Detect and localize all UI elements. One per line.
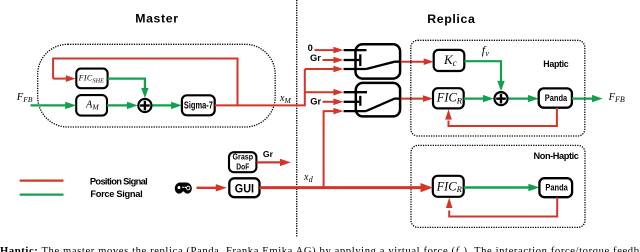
wire red haptic feedback Panda to FIC_R: [449, 108, 557, 126]
gamepad icon: [175, 182, 192, 193]
svg-text:Master: Master: [135, 12, 178, 26]
box FIC_R haptic: [433, 88, 464, 108]
wire green FIC_SHE to plus1: [108, 79, 145, 89]
svg-text:Gr: Gr: [310, 97, 321, 107]
box GUI: [229, 178, 259, 197]
wire red gamepad to GUI: [197, 187, 217, 189]
switch SW2: [344, 83, 400, 117]
wire red arrow Grasp DoF out: [257, 161, 281, 163]
svg-text:Position Signal: Position Signal: [90, 177, 148, 187]
svg-text:GUI: GUI: [235, 182, 254, 196]
wire green K_c to plus2: [464, 61, 501, 81]
svg-text:Replica: Replica: [427, 12, 475, 26]
wire red into switch1 input3: [305, 68, 334, 70]
wire green plus1 to Sigma-7: [152, 104, 172, 106]
wire red switch1 output to K_c: [401, 61, 425, 63]
legend green line: [20, 193, 64, 195]
svg-text:Gr: Gr: [263, 149, 274, 159]
svg-text:0: 0: [308, 43, 313, 53]
wire red arrow 0 into switch1 input1: [315, 49, 335, 51]
svg-text:Grasp: Grasp: [233, 152, 254, 162]
svg-text:DoF: DoF: [236, 162, 249, 172]
svg-text:Non-Haptic: Non-Haptic: [534, 151, 579, 161]
wire red arrow into FIC_SHE: [53, 78, 66, 80]
non-haptic dashed box: [411, 145, 585, 227]
summing junction master: [138, 99, 151, 112]
haptic dashed box: [411, 40, 585, 136]
box FIC_R non-haptic: [433, 176, 464, 197]
wire green Panda to F_FB out: [572, 97, 593, 99]
box Grasp DoF: [229, 152, 256, 172]
master dashed rounded box: [38, 44, 276, 127]
svg-text:Sigma-7: Sigma-7: [184, 100, 213, 111]
box Panda non-haptic: [539, 178, 572, 197]
svg-text:Haptic: The master moves the r: Haptic: The master moves the replica (Pa…: [0, 246, 639, 252]
box Sigma-7: [182, 95, 215, 115]
wire red non-haptic feedback Panda to FIC_R: [449, 197, 557, 216]
wire red x_M from Sigma-7 to switch column: [215, 69, 305, 105]
wire green plus2 to Panda: [508, 97, 528, 99]
box K_c: [434, 50, 465, 71]
wire red x_d GUI to FIC_R non-haptic (thick): [260, 186, 422, 189]
svg-text:Panda: Panda: [545, 93, 568, 103]
wire red branch to switch2 input1: [305, 91, 334, 93]
box FIC_SHE: [76, 69, 107, 89]
summing junction haptic: [494, 92, 507, 105]
legend red line: [20, 179, 64, 181]
wire red arrow Gr into switch2 input2: [323, 101, 335, 103]
svg-text:Gr: Gr: [310, 53, 321, 63]
svg-text:Force Signal: Force Signal: [90, 189, 142, 199]
wire red x_d branch up into switch2 input3: [324, 111, 334, 188]
wire red feedback master (from Sigma-7 output: up, left, down into FIC_SHE): [53, 59, 237, 106]
wire green FIC_R to plus2: [464, 97, 484, 99]
wire red arrow Gr into switch1 input2: [323, 59, 335, 61]
box Panda haptic: [539, 88, 572, 107]
svg-text:Haptic: Haptic: [543, 59, 568, 69]
wire green A_M to plus1: [107, 104, 128, 106]
wire green FIC_R to Panda non-haptic: [464, 186, 529, 188]
wire green F_FB arrow into A_M: [31, 104, 67, 106]
svg-text:Panda: Panda: [545, 183, 568, 193]
switch SW1: [344, 44, 401, 78]
separator dashed line: [296, 0, 298, 237]
wire red switch2 output to FIC_R haptic: [401, 98, 424, 100]
box A_M: [76, 95, 107, 116]
